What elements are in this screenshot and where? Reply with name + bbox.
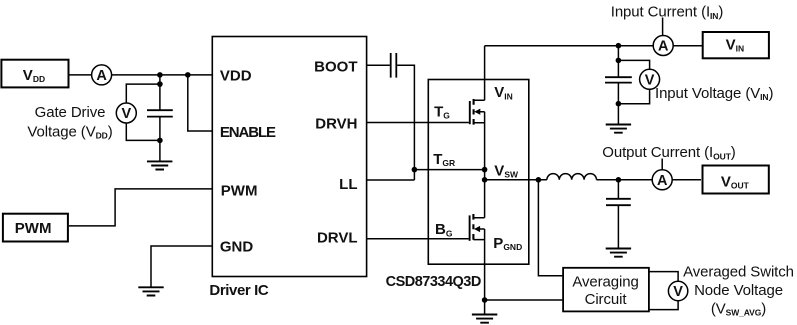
svg-text:ENABLE: ENABLE xyxy=(220,124,276,141)
svg-text:V: V xyxy=(673,284,683,300)
svg-text:Averaging: Averaging xyxy=(572,274,638,291)
svg-text:Input Current (IIN): Input Current (IIN) xyxy=(611,4,724,21)
svg-text:DRVL: DRVL xyxy=(317,229,358,246)
svg-text:LL: LL xyxy=(339,176,357,193)
svg-text:Driver IC: Driver IC xyxy=(209,282,268,299)
svg-text:Gate Drive: Gate Drive xyxy=(35,104,106,121)
svg-text:Input Voltage (VIN): Input Voltage (VIN) xyxy=(655,85,773,102)
svg-text:Averaged Switch: Averaged Switch xyxy=(683,264,794,281)
svg-text:A: A xyxy=(657,173,668,189)
svg-text:GND: GND xyxy=(220,238,254,255)
svg-text:BOOT: BOOT xyxy=(314,59,357,76)
svg-text:V: V xyxy=(121,106,131,122)
svg-text:A: A xyxy=(658,39,669,55)
svg-text:Circuit: Circuit xyxy=(585,291,628,308)
svg-text:VDD: VDD xyxy=(220,68,252,85)
svg-text:PWM: PWM xyxy=(221,182,258,199)
svg-text:Node Voltage: Node Voltage xyxy=(694,282,783,299)
svg-text:DRVH: DRVH xyxy=(315,116,357,133)
svg-text:A: A xyxy=(96,68,107,84)
svg-text:CSD87334Q3D: CSD87334Q3D xyxy=(386,274,481,290)
svg-text:PWM: PWM xyxy=(15,220,52,237)
svg-text:V: V xyxy=(645,73,655,89)
